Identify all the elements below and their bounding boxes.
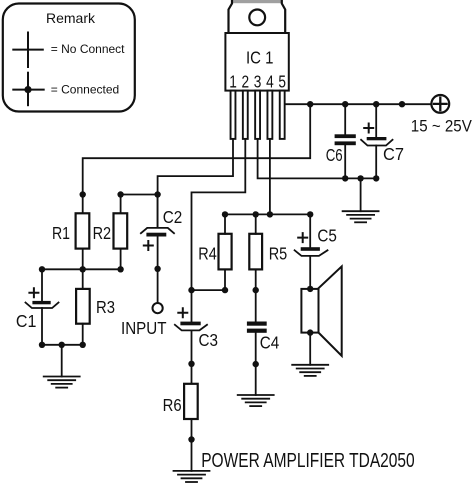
- svg-text:C4: C4: [260, 333, 280, 353]
- IC1 tab outline: [229, 0, 286, 33]
- IC1 pin 3 lead: [255, 91, 260, 139]
- capacitor C5 plus plate: [301, 247, 320, 251]
- node pin4 rail dot: [267, 211, 273, 217]
- wire R4 bottom lead: [224, 269, 226, 290]
- node dot on input wire: [154, 266, 160, 272]
- node R5 top dot: [253, 211, 259, 217]
- svg-text:C6: C6: [326, 145, 343, 165]
- capacitor C5 minus plate: [295, 250, 328, 256]
- supply terminal plus: [434, 98, 447, 111]
- svg-text:= Connected: = Connected: [51, 82, 119, 96]
- capacitor C6: [335, 134, 356, 145]
- resistor R3: [76, 289, 90, 324]
- node input bias dot: [154, 191, 160, 197]
- node speaker top dot: [307, 286, 313, 292]
- capacitor C7 plus plate: [367, 137, 387, 140]
- wire pin3 to ground rail: [258, 139, 377, 179]
- ground symbol R6: [174, 471, 210, 482]
- node dot C3-R6: [188, 361, 194, 367]
- no-connect cross symbol: [13, 33, 43, 68]
- node R2 bottom dot: [117, 266, 123, 272]
- svg-text:INPUT: INPUT: [121, 318, 167, 338]
- svg-text:C7: C7: [383, 144, 404, 164]
- node R2 top dot: [117, 191, 123, 197]
- IC1 tab gray top: [232, 0, 283, 3]
- C7 plus sign: [364, 124, 373, 133]
- capacitor C2 minus plate: [141, 228, 174, 233]
- resistor R4: [219, 234, 232, 270]
- node C6 top dot: [342, 101, 348, 107]
- node feedback left dot: [188, 287, 194, 293]
- speaker horn: [319, 266, 342, 355]
- node C5 branch dot: [307, 211, 313, 217]
- wire V+ down to R1 rail: [83, 104, 311, 213]
- ground symbol left: [44, 377, 80, 388]
- IC1 mounting hole: [249, 10, 265, 26]
- wire C3 to R6: [191, 330, 193, 383]
- node C7 top dot: [373, 101, 379, 107]
- wire C6 leads: [344, 104, 346, 178]
- ground symbol C4: [238, 395, 274, 406]
- remark legend box: [3, 4, 135, 112]
- wire C2 bottom to input terminal: [157, 237, 159, 303]
- node R1R3 dot: [80, 266, 86, 272]
- resistor R5: [249, 234, 262, 270]
- IC1 pin 5 lead: [280, 91, 285, 139]
- node C6 bottom dot: [342, 175, 348, 181]
- node dot R6 bottom: [188, 436, 194, 442]
- svg-text:R6: R6: [163, 395, 182, 415]
- wire left ground stem: [61, 345, 63, 377]
- wire C2 top lead: [157, 195, 159, 228]
- wire C7 leads: [375, 104, 377, 178]
- wire R2 top to input node: [121, 194, 158, 196]
- capacitor C3 minus plate: [175, 325, 207, 331]
- node R4 bottom dot: [222, 287, 228, 293]
- node dot on supply wire: [399, 101, 405, 107]
- wire R3 top lead: [82, 269, 84, 289]
- wire bias rail: [42, 268, 121, 270]
- wire output rail: [225, 213, 310, 215]
- resistor R6: [184, 384, 198, 419]
- wire speaker ground stem: [309, 333, 311, 365]
- wire R3 bottom lead: [82, 324, 84, 345]
- node dot on C4 ground wire: [253, 361, 259, 367]
- wire R5 top lead: [255, 214, 257, 233]
- node C1 top dot: [39, 266, 45, 272]
- wire C5 to speaker: [309, 256, 311, 289]
- wire R4 top lead: [224, 214, 226, 233]
- resistor R1: [76, 213, 90, 248]
- capacitor C3 plus plate: [180, 322, 200, 326]
- wire R1 bottom lead: [82, 249, 84, 270]
- wire ground stem: [360, 178, 362, 211]
- capacitor C1 minus plate: [26, 303, 59, 309]
- node ground stem dot: [357, 175, 363, 181]
- svg-text:2: 2: [242, 72, 250, 92]
- node dot below R5: [253, 287, 259, 293]
- svg-text:R2: R2: [93, 223, 112, 243]
- node C1 bottom dot: [39, 342, 45, 348]
- svg-text:C3: C3: [199, 330, 219, 350]
- svg-text:3: 3: [254, 72, 262, 92]
- svg-text:1: 1: [229, 72, 237, 92]
- node R3 bottom dot: [80, 342, 86, 348]
- ground symbol speaker: [292, 365, 328, 376]
- wire pin2 to feedback node: [192, 139, 246, 290]
- node R4 top dot: [222, 211, 228, 217]
- svg-text:R1: R1: [52, 223, 70, 243]
- wire R2 top lead: [120, 195, 122, 214]
- wire pin1 to input node: [158, 139, 233, 228]
- svg-text:POWER AMPLIFIER TDA2050: POWER AMPLIFIER TDA2050: [201, 450, 415, 472]
- svg-text:R3: R3: [96, 297, 115, 317]
- svg-text:R5: R5: [269, 244, 288, 264]
- ground symbol supply: [343, 211, 379, 222]
- supply terminal circle: [431, 95, 449, 113]
- wire R2 bottom lead: [120, 249, 122, 270]
- IC1 pin 1 lead: [231, 91, 236, 139]
- svg-text:C5: C5: [317, 226, 337, 246]
- capacitor C7 minus plate: [361, 140, 392, 146]
- svg-text:5: 5: [278, 72, 286, 92]
- node V+ branch dot: [307, 101, 313, 107]
- node speaker bottom dot: [307, 329, 313, 335]
- wire R6 bottom lead: [191, 419, 193, 471]
- IC1 pin 2 lead: [243, 91, 248, 139]
- connected cross symbol: [13, 73, 43, 106]
- C1 plus sign: [29, 288, 38, 297]
- node dot on R1 top wire: [80, 191, 86, 197]
- svg-text:C2: C2: [163, 207, 183, 227]
- capacitor C1 plus plate: [32, 301, 50, 304]
- svg-text:C1: C1: [16, 311, 37, 331]
- IC1 pin 4 lead: [267, 91, 272, 139]
- speaker body: [301, 289, 318, 333]
- resistor R2: [114, 213, 128, 248]
- wire feedback rail: [192, 289, 226, 291]
- node C7 bottom dot: [373, 175, 379, 181]
- wire C1 bottom lead: [41, 308, 43, 345]
- svg-text:R4: R4: [198, 244, 217, 264]
- wire C3 top lead: [191, 290, 193, 322]
- wire ground rail left: [42, 344, 83, 346]
- capacitor C2 plus plate: [146, 233, 166, 237]
- svg-text:15 ~ 25V: 15 ~ 25V: [411, 118, 472, 136]
- wire pin5 to supply terminal: [285, 103, 432, 105]
- C5 plus sign: [298, 233, 307, 242]
- svg-text:= No Connect: = No Connect: [51, 42, 125, 56]
- capacitor C4: [247, 322, 267, 333]
- svg-text:IC 1: IC 1: [246, 48, 274, 68]
- node left gnd stem dot: [59, 342, 65, 348]
- svg-text:Remark: Remark: [46, 10, 96, 26]
- C2 plus sign: [144, 241, 153, 250]
- wire C1 top lead: [41, 269, 43, 301]
- C3 plus sign: [178, 308, 187, 317]
- wire C4 bottom lead: [255, 333, 257, 395]
- wire R5 bottom to C4: [255, 269, 257, 321]
- wire C5 top lead: [309, 214, 311, 247]
- svg-text:4: 4: [266, 72, 274, 92]
- input terminal circle: [153, 303, 163, 313]
- wire pin4 to output rail: [269, 139, 271, 215]
- IC1 body: [225, 33, 288, 91]
